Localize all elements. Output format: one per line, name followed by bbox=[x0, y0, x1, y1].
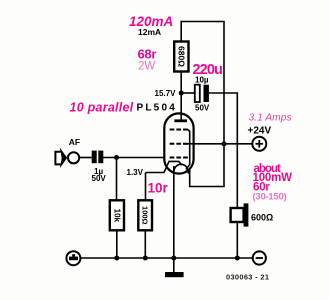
svg-text:2W: 2W bbox=[138, 60, 155, 72]
svg-text:220u: 220u bbox=[193, 62, 222, 78]
svg-text:AF: AF bbox=[69, 137, 80, 147]
svg-text:+24V: +24V bbox=[248, 125, 272, 136]
svg-text:15.7V: 15.7V bbox=[155, 89, 177, 98]
svg-text:(30-150): (30-150) bbox=[253, 191, 287, 202]
svg-text:030063 - 21: 030063 - 21 bbox=[226, 272, 269, 281]
svg-text:100Ω: 100Ω bbox=[141, 206, 150, 225]
svg-text:3.1 Amps: 3.1 Amps bbox=[249, 113, 292, 124]
svg-text:PL504: PL504 bbox=[137, 103, 177, 114]
svg-text:1.3V: 1.3V bbox=[127, 168, 144, 177]
svg-text:600Ω: 600Ω bbox=[251, 213, 273, 223]
svg-text:10k: 10k bbox=[113, 209, 122, 223]
svg-text:680Ω: 680Ω bbox=[176, 46, 186, 67]
svg-text:10r: 10r bbox=[148, 181, 169, 196]
svg-text:50V: 50V bbox=[92, 174, 107, 183]
svg-text:10 parallel: 10 parallel bbox=[70, 100, 134, 114]
svg-text:120mA: 120mA bbox=[129, 14, 173, 29]
svg-text:50V: 50V bbox=[195, 103, 210, 112]
